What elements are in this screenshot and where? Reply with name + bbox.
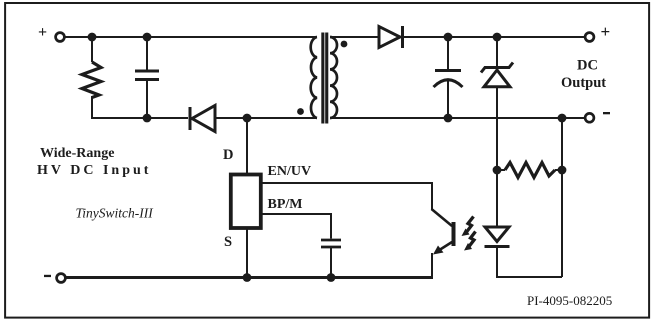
terminal - input: [44, 274, 65, 283]
optocoupler light arrow 2: [464, 232, 476, 251]
wire resistor bottom stub: [91, 96, 93, 118]
optocoupler phototransistor: [261, 183, 476, 278]
wire emitter drop to bottom rail: [431, 253, 433, 278]
diode D2 output rectifier: [379, 26, 403, 48]
label DC Output: [561, 58, 606, 92]
wire C1 top stub: [146, 37, 148, 70]
diode D1 clamp (cathode left): [190, 106, 215, 132]
node resistor top junction: [88, 33, 97, 42]
wire C3 bottom stub: [447, 80, 449, 118]
wire right drop from - rail to bottom corner: [561, 118, 563, 277]
wire C3 top stub: [447, 37, 449, 70]
svg-text:S: S: [224, 234, 232, 250]
transformer T1 secondary polarity dot: [341, 41, 348, 48]
capacitor C1 clamp: [135, 71, 159, 80]
node feedback left junction: [493, 166, 502, 175]
node C3 bottom junction: [444, 114, 453, 123]
wire LED top stub: [496, 170, 498, 227]
svg-text:D: D: [223, 147, 233, 163]
wire top rail from + input to transformer primary top: [64, 36, 317, 38]
svg-text:Wide-Range: Wide-Range: [40, 146, 114, 161]
svg-text:EN/UV: EN/UV: [268, 164, 312, 179]
capacitor C2 bypass: [321, 240, 341, 247]
wire EN/UV to collector: [261, 183, 432, 210]
node bypass cap junction on bottom rail: [327, 273, 336, 282]
svg-text:+: +: [601, 22, 611, 41]
wire D2 cathode to + output: [403, 36, 585, 38]
wire resistor top stub: [91, 37, 93, 62]
svg-text:HV DC Input: HV DC Input: [37, 163, 151, 178]
phototransistor emitter lead with arrow: [437, 242, 452, 252]
wire drain D from node D to IC: [246, 118, 248, 173]
optocoupler LED: [485, 227, 510, 247]
wire clamp bottom rail from resistor to diode D1: [92, 117, 188, 118]
phototransistor base bar: [452, 222, 456, 246]
svg-text:PI-4095-082205: PI-4095-082205: [527, 293, 612, 308]
wire node D to primary bottom: [247, 117, 317, 119]
wire D1 to node D: [215, 117, 247, 119]
optocoupler light arrow 1: [462, 217, 474, 237]
node D junction: [243, 114, 252, 123]
terminal + input: [38, 24, 64, 41]
terminal - output: [585, 112, 610, 122]
transformer T1 secondary winding: [330, 37, 337, 118]
svg-text:TinySwitch-III: TinySwitch-III: [76, 206, 155, 221]
wire BP/M pin to bypass cap: [261, 214, 331, 239]
wire secondary top to diode D2: [330, 36, 379, 38]
node - rail to right drop junction: [558, 114, 567, 123]
svg-text:BP/M: BP/M: [268, 197, 303, 212]
node S junction on bottom rail: [243, 273, 252, 282]
wire bottom return rail: [66, 276, 433, 279]
svg-text:DC: DC: [577, 58, 598, 74]
node capacitor C1 top junction: [143, 33, 152, 42]
phototransistor collector lead: [432, 209, 453, 226]
svg-text:+: +: [38, 24, 47, 41]
wire feedback resistor left stub: [497, 169, 505, 171]
capacitor C3 output electrolytic: [434, 71, 463, 88]
node capacitor C1 bottom junction: [143, 114, 152, 123]
wire bypass cap bottom stub: [330, 247, 332, 278]
transformer T1 primary winding: [311, 37, 317, 118]
wire feedback resistor right stub: [555, 169, 562, 171]
label Wide-Range HV DC Input: [37, 146, 151, 178]
wire secondary bottom - rail: [330, 117, 585, 119]
resistor R1 input damper: [82, 62, 101, 98]
wire zener top stub: [496, 37, 498, 66]
transformer T1 core: [321, 33, 328, 124]
zener diode VR1: [481, 63, 513, 87]
node feedback right junction: [558, 166, 567, 175]
terminal + output: [585, 22, 610, 41]
transformer T1 primary polarity dot: [297, 108, 304, 115]
node zener top junction: [493, 33, 502, 42]
wire C1 bottom stub: [146, 81, 148, 118]
wire zener anode down to feedback node (crosses - rail): [496, 87, 498, 170]
svg-text:Output: Output: [561, 75, 606, 91]
wire source S from IC to bottom rail: [246, 228, 248, 278]
IC U1 TinySwitch-III: [231, 175, 261, 229]
node output cap top junction: [444, 33, 453, 42]
resistor R2 feedback (parallel with LED): [505, 163, 555, 178]
wire LED cathode elbow to right drop: [497, 247, 562, 278]
